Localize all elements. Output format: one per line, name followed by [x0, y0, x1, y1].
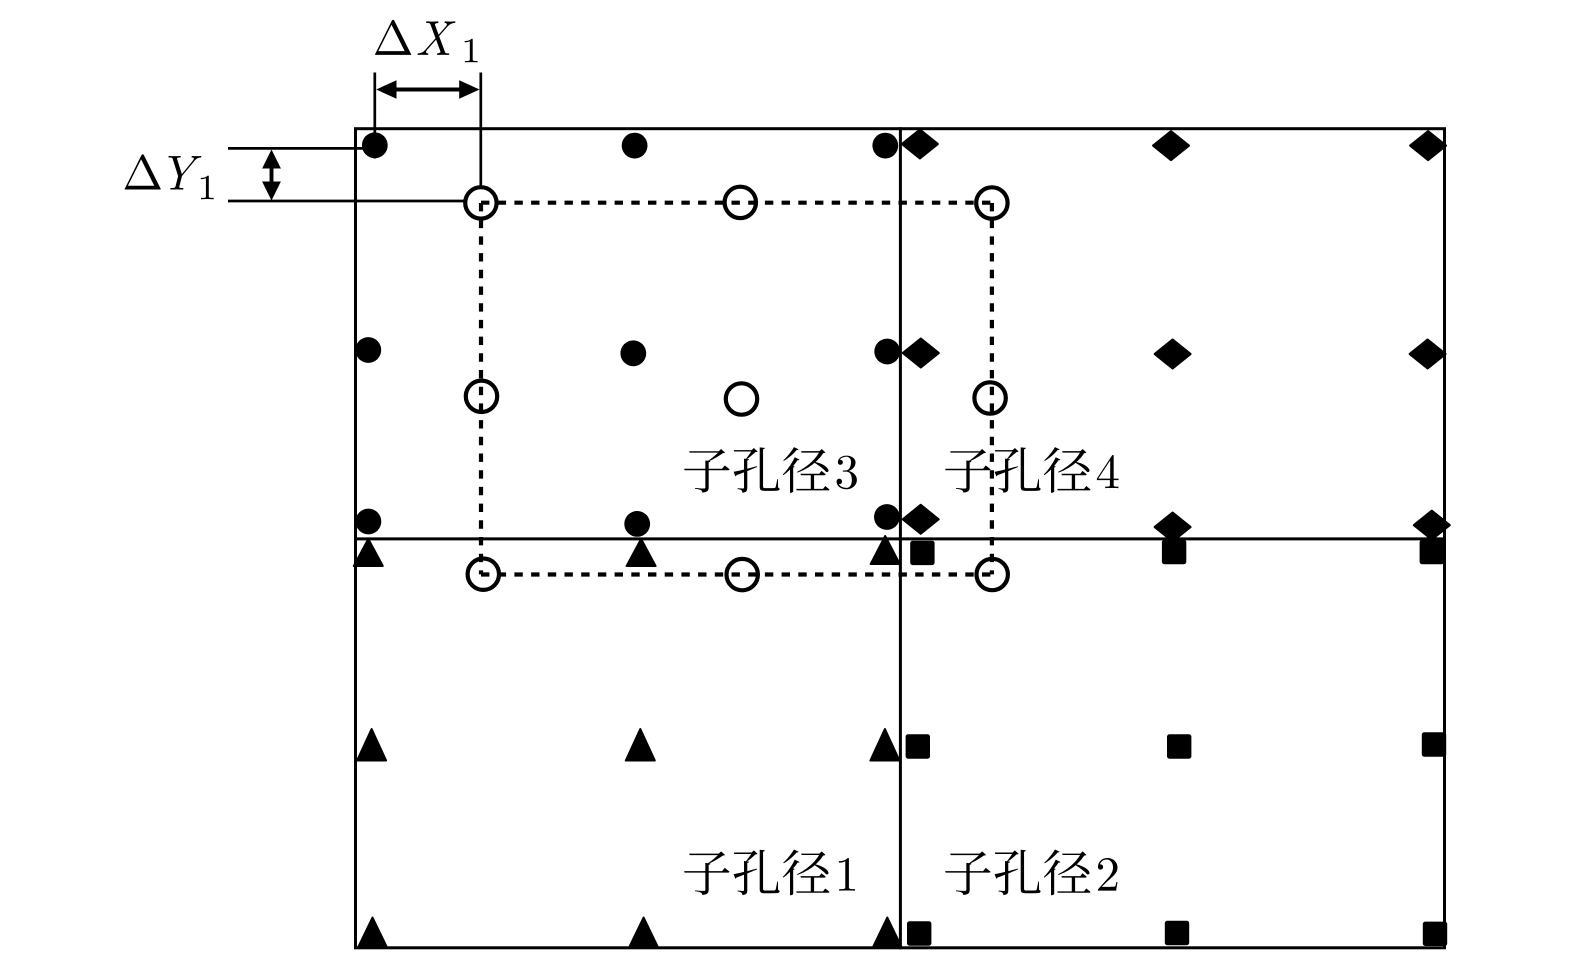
ideal spot triangle T6 (sub-aperture 1) — [870, 729, 899, 761]
ideal spot square S7 (sub-aperture 2) — [907, 921, 931, 945]
ideal spot diamond D5 (sub-aperture 4) — [1155, 340, 1191, 369]
ideal spot triangle T4 (sub-aperture 1) — [357, 729, 386, 761]
ideal spot filled circle C8 (sub-aperture 3) — [624, 511, 650, 537]
ideal spot diamond D4 (sub-aperture 4) — [903, 339, 939, 368]
dimension extension line at y=148.4 — [228, 147, 375, 150]
ideal spot square S6 (sub-aperture 2) — [1422, 732, 1446, 756]
ideal spot filled circle C1 (sub-aperture 3) — [362, 132, 388, 158]
outer aperture frame — [356, 129, 1445, 948]
dimension extension line at y=201 — [228, 200, 467, 203]
label sub-aperture 1 — [684, 851, 729, 895]
dimension double arrow DY1 — [270, 163, 274, 187]
shifted spot open circle O4 row2 col1 — [466, 381, 497, 412]
ideal spot square S2 (sub-aperture 2) — [1162, 540, 1186, 564]
shifted spot open circle O1 row1 col1 — [465, 187, 496, 218]
ideal spot triangle T1 (sub-aperture 1) — [354, 539, 383, 566]
ideal spot filled circle C9 (sub-aperture 3) — [874, 504, 900, 530]
ideal spot triangle T5 (sub-aperture 1) — [626, 729, 655, 761]
shifted spot open circle O2 row1 col2 — [725, 187, 756, 218]
ideal spot diamond D6 (sub-aperture 4) — [1410, 340, 1446, 369]
label DeltaY1 — [125, 154, 161, 189]
shifted spot open circle O9 row3 col3 — [977, 559, 1008, 590]
ideal spot triangle T8 (sub-aperture 1) — [629, 918, 658, 948]
vertical divider between sub-apertures — [899, 127, 902, 949]
ideal spot diamond D7 (sub-aperture 4) — [903, 505, 939, 534]
ideal spot triangle T9 (sub-aperture 1) — [873, 918, 902, 948]
ideal spot filled circle C5 (sub-aperture 3) — [620, 340, 646, 366]
shifted spot open circle O8 row3 col2 — [727, 559, 758, 590]
ideal spot square S4 (sub-aperture 2) — [906, 734, 930, 758]
ideal spot triangle T3 (sub-aperture 1) — [871, 536, 900, 564]
dimension extension line at x=480.8 — [479, 73, 482, 187]
dotted link top row of open circles — [481, 201, 992, 205]
dimension extension line at x=374.8 — [373, 73, 376, 159]
dotted link left column of open circles — [479, 203, 483, 574]
dotted link bottom row of open circles — [481, 572, 992, 576]
horizontal divider between sub-apertures — [354, 537, 1446, 540]
label sub-aperture 4 — [945, 449, 990, 493]
dimension double arrow DX1 — [394, 88, 462, 92]
shifted spot open circle O6 row2 col3 — [974, 382, 1005, 413]
ideal spot diamond D3 (sub-aperture 4) — [1410, 131, 1446, 160]
shifted spot open circle O5 row2 col2 — [726, 383, 757, 414]
ideal spot filled circle C7 (sub-aperture 3) — [356, 509, 382, 535]
label sub-aperture 2 — [945, 851, 990, 895]
label DeltaX1 — [375, 20, 411, 55]
ideal spot diamond D9 (sub-aperture 4) — [1414, 511, 1450, 540]
ideal spot square S8 (sub-aperture 2) — [1165, 921, 1189, 945]
ideal spot filled circle C3 (sub-aperture 3) — [872, 133, 898, 159]
ideal spot filled circle C6 (sub-aperture 3) — [874, 339, 900, 365]
label sub-aperture 3 — [684, 449, 729, 493]
ideal spot filled circle C4 (sub-aperture 3) — [355, 337, 381, 363]
shifted spot open circle O7 row3 col1 — [468, 559, 499, 590]
ideal spot square S1 (sub-aperture 2) — [910, 541, 934, 565]
ideal spot square S3 (sub-aperture 2) — [1420, 540, 1444, 564]
dotted link right column of open circles — [990, 203, 994, 574]
ideal spot filled circle C2 (sub-aperture 3) — [622, 133, 648, 159]
ideal spot diamond D1 (sub-aperture 4) — [902, 130, 938, 159]
ideal spot diamond D2 (sub-aperture 4) — [1153, 131, 1189, 160]
ideal spot square S5 (sub-aperture 2) — [1167, 734, 1191, 758]
ideal spot triangle T7 (sub-aperture 1) — [358, 918, 387, 948]
ideal spot square S9 (sub-aperture 2) — [1423, 922, 1447, 946]
ideal spot triangle T2 (sub-aperture 1) — [627, 539, 656, 566]
ideal spot diamond D8 (sub-aperture 4) — [1155, 513, 1191, 542]
shifted spot open circle O3 row1 col3 — [976, 187, 1007, 218]
